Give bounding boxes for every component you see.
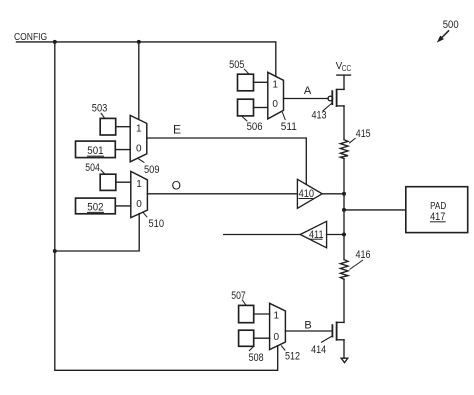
svg-text:411: 411 bbox=[309, 229, 324, 241]
svg-text:1: 1 bbox=[136, 124, 142, 135]
svg-text:502: 502 bbox=[87, 202, 103, 214]
svg-text:512: 512 bbox=[285, 351, 300, 363]
svg-text:410: 410 bbox=[299, 188, 315, 200]
svg-text:414: 414 bbox=[311, 344, 326, 356]
svg-text:0: 0 bbox=[274, 332, 280, 343]
svg-text:413: 413 bbox=[312, 110, 327, 122]
svg-text:B: B bbox=[304, 320, 311, 332]
svg-text:506: 506 bbox=[247, 121, 263, 133]
svg-text:511: 511 bbox=[281, 121, 297, 133]
svg-text:505: 505 bbox=[229, 59, 244, 71]
svg-text:504: 504 bbox=[85, 162, 100, 174]
svg-text:1: 1 bbox=[136, 179, 142, 190]
svg-text:CONFIG: CONFIG bbox=[14, 32, 47, 43]
svg-text:507: 507 bbox=[231, 290, 245, 302]
svg-text:509: 509 bbox=[144, 164, 160, 176]
svg-text:510: 510 bbox=[149, 218, 165, 230]
svg-text:503: 503 bbox=[92, 102, 108, 114]
svg-text:0: 0 bbox=[272, 99, 278, 110]
svg-text:CC: CC bbox=[342, 63, 352, 73]
svg-text:0: 0 bbox=[136, 143, 142, 154]
svg-text:501: 501 bbox=[87, 145, 103, 157]
svg-text:415: 415 bbox=[356, 128, 371, 140]
svg-text:1: 1 bbox=[272, 80, 278, 91]
svg-text:416: 416 bbox=[356, 249, 371, 261]
svg-text:500: 500 bbox=[443, 19, 459, 31]
svg-text:508: 508 bbox=[249, 352, 264, 364]
svg-text:417: 417 bbox=[430, 211, 445, 223]
svg-text:0: 0 bbox=[136, 199, 142, 210]
svg-text:O: O bbox=[172, 179, 181, 193]
svg-text:1: 1 bbox=[274, 311, 280, 322]
svg-text:A: A bbox=[304, 85, 312, 97]
svg-text:E: E bbox=[173, 122, 181, 136]
